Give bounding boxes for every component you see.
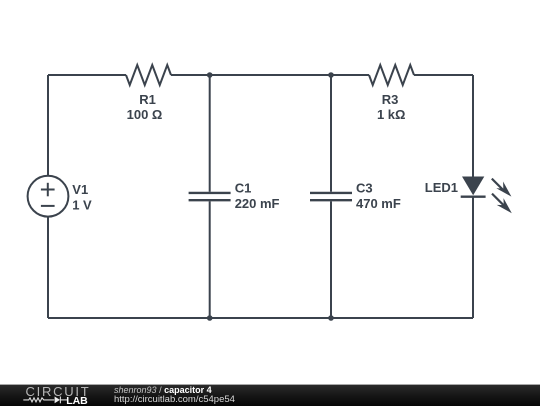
svg-text:1 kΩ: 1 kΩ [377, 107, 406, 122]
capacitor C3 branch upper wire [330, 75, 332, 192]
resistor R1 [126, 65, 171, 85]
svg-text:1 V: 1 V [72, 198, 92, 213]
wire left lower [47, 217, 49, 318]
resistor R3 [369, 65, 414, 85]
capacitor C3 branch lower wire [330, 201, 332, 318]
wire top-left segment [48, 74, 126, 76]
wire top-middle segment [171, 74, 369, 76]
svg-text:470 mF: 470 mF [356, 196, 401, 211]
node junction bottom-left [207, 315, 213, 321]
wire left upper [47, 75, 49, 176]
svg-text:100 Ω: 100 Ω [127, 107, 163, 122]
wire bottom [48, 317, 473, 319]
wire top-right segment [414, 74, 473, 76]
svg-text:C1: C1 [235, 180, 252, 195]
svg-text:220 mF: 220 mF [235, 196, 280, 211]
svg-text:LAB: LAB [66, 395, 88, 406]
svg-text:R3: R3 [382, 92, 399, 107]
capacitor C3 [310, 193, 352, 200]
svg-text:C3: C3 [356, 180, 373, 195]
svg-text:V1: V1 [72, 182, 88, 197]
node junction top-right [328, 72, 334, 78]
capacitor C1 branch lower wire [209, 201, 211, 318]
node junction top-left [207, 72, 213, 78]
wire right upper [472, 75, 474, 177]
node junction bottom-right [328, 315, 334, 321]
footer meta text [114, 385, 414, 405]
svg-text:LED1: LED1 [425, 180, 458, 195]
footer bar [0, 384, 540, 406]
voltage source V1 [28, 176, 69, 217]
capacitor C1 [189, 193, 231, 200]
wire right lower [472, 197, 474, 318]
LED LED1 [461, 177, 512, 214]
capacitor C1 branch upper wire [209, 75, 211, 192]
svg-text:R1: R1 [139, 92, 156, 107]
CircuitLab logo [0, 385, 110, 406]
